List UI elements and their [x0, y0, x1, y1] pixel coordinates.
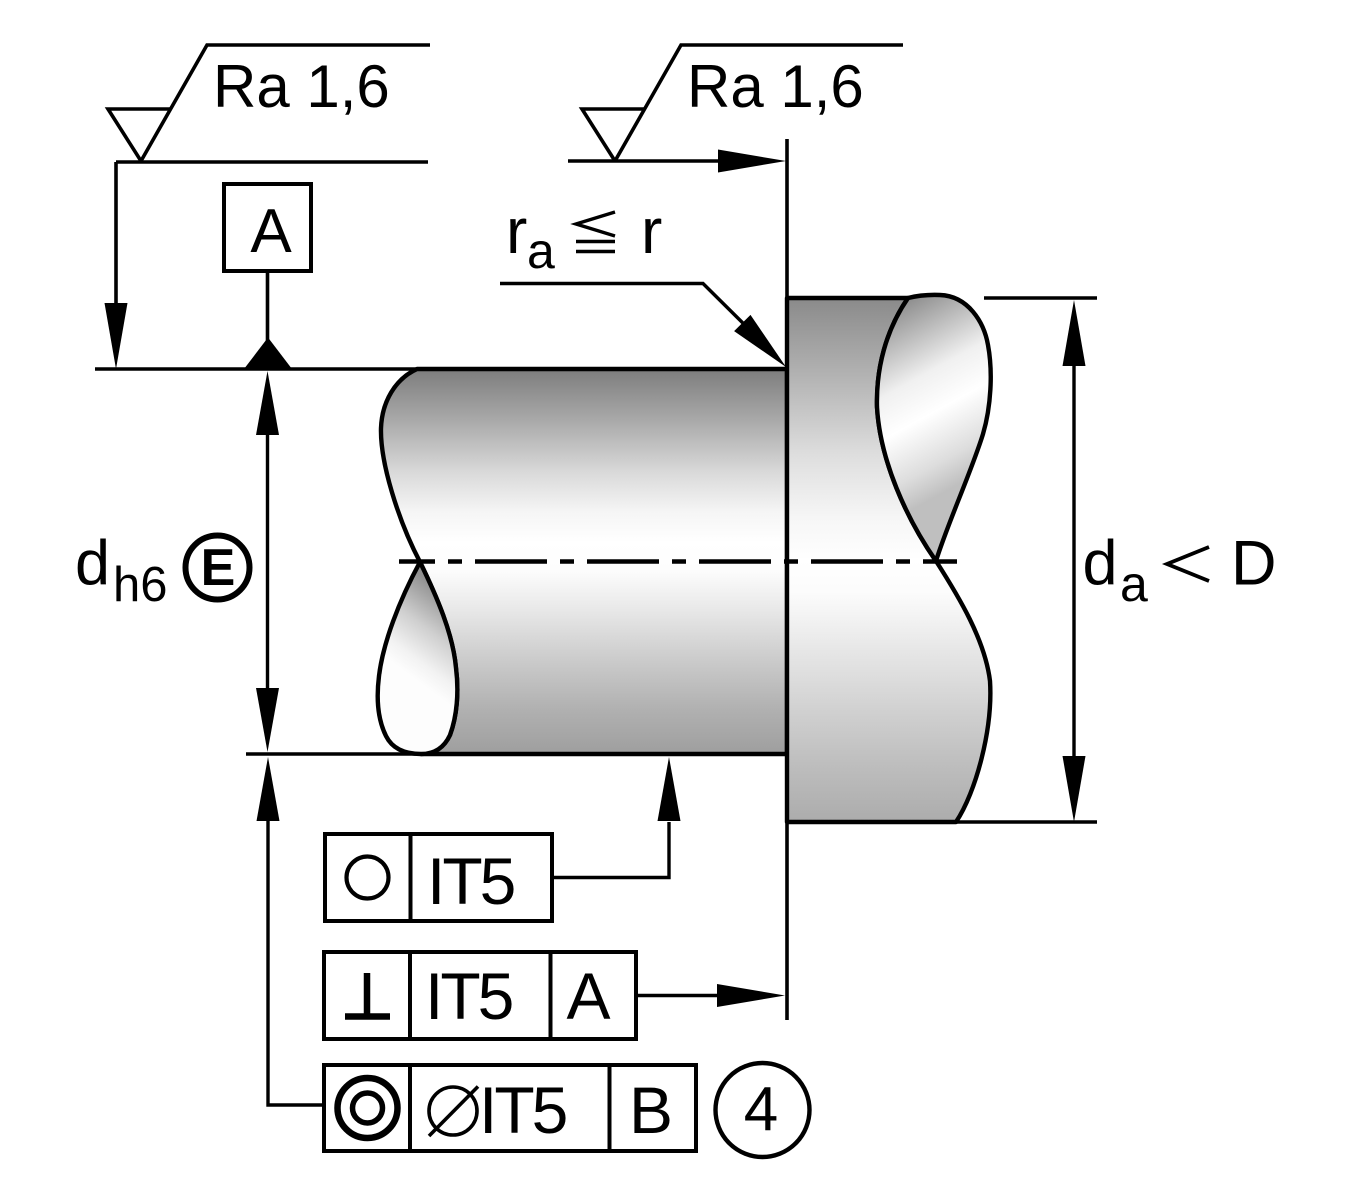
envelope symbol circled E [186, 536, 250, 600]
datum A box [224, 184, 311, 271]
ra leader arrow (to fillet corner) [734, 315, 786, 367]
diameter symbol [429, 1087, 478, 1137]
da top extension line [984, 296, 1097, 299]
balloon circle 4 [716, 1063, 810, 1157]
left Ra leader arrow (down) [105, 303, 128, 369]
circularity tolerance frame [325, 834, 552, 921]
svg-text:r: r [641, 195, 662, 267]
large cylinder (shoulder) body [787, 298, 990, 822]
svg-text:E: E [201, 539, 236, 597]
centerline (dash-dot axis) [399, 559, 957, 564]
svg-text:IT5: IT5 [425, 959, 512, 1033]
surface finish symbol Ra 1,6 (right) [568, 45, 903, 161]
svg-text:A: A [250, 197, 292, 266]
svg-text:r: r [506, 195, 527, 267]
coaxiality symbol (double circle) [338, 1078, 398, 1138]
surface finish symbol Ra 1,6 (left) [108, 45, 430, 330]
da dimension line [1072, 330, 1075, 790]
svg-text:a: a [527, 223, 555, 279]
svg-text:IT5: IT5 [427, 844, 514, 918]
svg-text:Ra 1,6: Ra 1,6 [687, 53, 864, 120]
perpendicularity leader arrow (right) [717, 984, 785, 1007]
dh6 dimension line [266, 400, 269, 730]
shoulder face vertical line [785, 139, 789, 1020]
large cylinder break teardrop (upper right) [877, 295, 991, 561]
svg-text:h6: h6 [113, 558, 168, 612]
perpendicularity tolerance frame [324, 952, 636, 1039]
svg-text:B: B [629, 1073, 673, 1147]
datum stem [266, 271, 270, 341]
text ra <= r [506, 195, 662, 267]
perpendicularity symbol [345, 973, 390, 1017]
svg-text:a: a [1120, 556, 1148, 612]
shaft bottom extension line [246, 752, 430, 755]
svg-text:d: d [75, 529, 110, 599]
svg-text:d: d [1083, 529, 1118, 599]
circularity leader [552, 822, 669, 878]
circularity symbol [347, 857, 389, 899]
dh6 arrow up [256, 371, 279, 435]
shaft top extension line [95, 367, 420, 370]
perpendicularity leader [636, 994, 722, 997]
svg-text:IT5: IT5 [479, 1073, 566, 1147]
small cylinder (shaft seat) body [381, 369, 787, 754]
svg-text:Ra 1,6: Ra 1,6 [213, 53, 390, 120]
connector arrow up [257, 757, 280, 821]
svg-text:A: A [566, 959, 610, 1033]
svg-text:4: 4 [744, 1075, 778, 1144]
da arrow down [1063, 756, 1086, 822]
right Ra leader arrow (right) [718, 150, 786, 173]
da arrow up [1063, 300, 1086, 366]
coaxiality tolerance frame [324, 1065, 696, 1151]
ra leader line [500, 284, 760, 341]
less-or-equal symbol (drawn) [576, 212, 615, 252]
dh6 arrow down [256, 688, 279, 752]
small cylinder break teardrop (lower left) [378, 562, 458, 754]
connector line to concentricity frame [268, 800, 324, 1105]
da bottom extension line [956, 820, 1097, 823]
datum triangle (filled) [244, 338, 292, 370]
svg-text:D: D [1231, 529, 1277, 599]
circularity leader arrow (up) [658, 757, 681, 821]
